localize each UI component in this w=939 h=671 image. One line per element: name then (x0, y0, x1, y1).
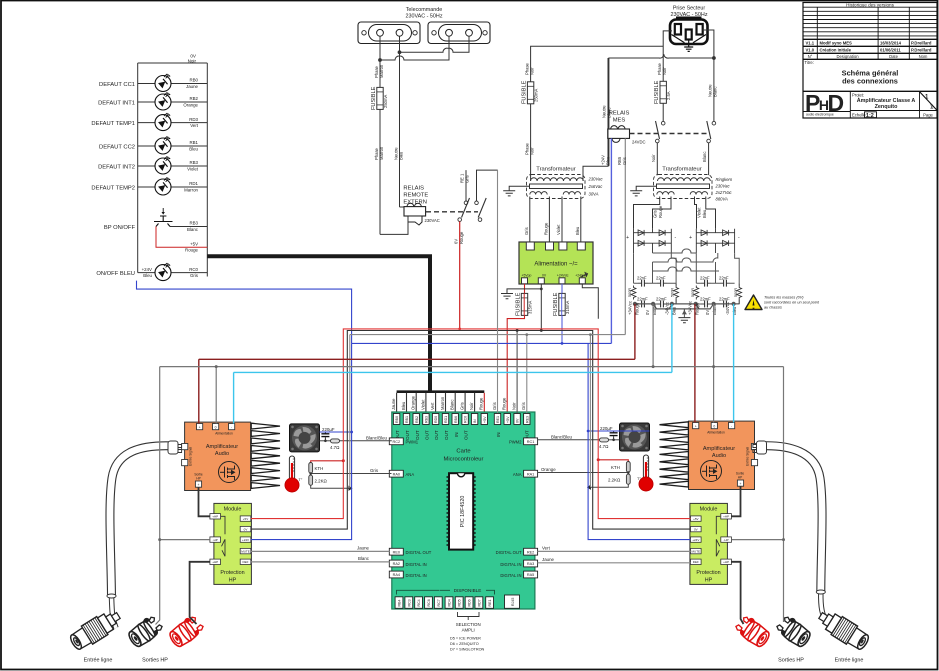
svg-text:2.5A: 2.5A (666, 91, 671, 100)
label wire colors top pins (391, 395, 526, 410)
svg-text:250mA: 250mA (534, 89, 539, 102)
wire +5V rouge run (251, 328, 691, 519)
heatsink left (251, 423, 280, 488)
svg-text:+24Vdc: +24Vdc (557, 274, 569, 278)
svg-text:RC7: RC7 (437, 599, 441, 606)
svg-text:V1.1: V1.1 (806, 41, 815, 46)
warning triangle (745, 295, 820, 310)
svg-text:RB2: RB2 (415, 416, 419, 423)
svg-text:HP: HP (738, 475, 742, 479)
LED DEFAUT INT2 (98, 156, 207, 174)
wire thick harness from LED panel (207, 256, 484, 392)
label sorties HP right (778, 658, 804, 664)
svg-text:+34Vcc: +34Vcc (628, 301, 633, 315)
svg-text:250mA: 250mA (383, 95, 388, 108)
svg-text:sont raccordées en un seul poi: sont raccordées en un seul point (764, 301, 820, 305)
svg-text:Alimentation: Alimentation (215, 432, 233, 436)
svg-text:Gris: Gris (521, 402, 526, 410)
svg-text:22mF: 22mF (719, 297, 730, 302)
svg-text:01/06/2011: 01/06/2011 (880, 48, 901, 53)
svg-text:MUTE: MUTE (241, 550, 250, 554)
label SELECTION AMPLI (450, 612, 485, 652)
svg-text:Amplificateur: Amplificateur (206, 444, 238, 450)
pins top row (393, 414, 530, 441)
svg-text:RD3: RD3 (189, 117, 198, 122)
svg-text:22mF: 22mF (637, 297, 648, 302)
connector RCA entree right (815, 607, 872, 653)
svg-text:RC3: RC3 (407, 599, 411, 606)
wire sortie HP left (199, 487, 210, 516)
svg-text:Jaune: Jaune (357, 545, 370, 550)
pin RC1 PWM2 (509, 438, 538, 445)
svg-text:Noir: Noir (530, 67, 535, 75)
capacitor 220uF right (600, 426, 618, 440)
amplifier U2 right box (689, 421, 758, 489)
svg-text:RB3: RB3 (425, 416, 429, 423)
svg-text:Historique des versions: Historique des versions (846, 2, 894, 7)
resistor 4.7R left (320, 435, 392, 450)
wire red BP to +5V row (156, 227, 207, 253)
connector J2 telecommande right (428, 22, 490, 44)
transformer T1 small (527, 58, 609, 199)
svg-text:230Vac: 230Vac (588, 177, 604, 182)
svg-text:2.2KΩ: 2.2KΩ (315, 479, 328, 484)
wire +HP to red post right (731, 562, 743, 624)
node LED panel bus frame (138, 63, 208, 277)
resistor 2.2K right (587, 472, 630, 490)
svg-text:500R: 500R (671, 288, 675, 297)
svg-text:DIGITAL IN: DIGITAL IN (500, 573, 521, 578)
caps 22mF row2 (634, 297, 735, 308)
svg-text:Page: Page (923, 113, 933, 118)
label +34Vcc rails (628, 301, 738, 315)
wire RE1 gris (497, 170, 499, 413)
svg-text:Transformateur: Transformateur (662, 167, 701, 173)
svg-text:T°: T° (299, 478, 303, 482)
svg-text:FUSIBLE: FUSIBLE (516, 292, 522, 316)
svg-text:Prise Secteur: Prise Secteur (673, 6, 706, 12)
svg-text:+: + (695, 424, 697, 428)
label Prise Secteur (670, 6, 707, 19)
binding post red left (166, 613, 205, 649)
svg-text:DIGITAL IN: DIGITAL IN (406, 573, 427, 578)
wire sortie HP right (731, 486, 740, 516)
thermometer right (637, 455, 653, 491)
svg-text:FUSIBLE: FUSIBLE (553, 292, 559, 316)
svg-text:RD7: RD7 (477, 599, 481, 606)
svg-text:RA0: RA0 (393, 472, 400, 476)
svg-text:22nF: 22nF (700, 276, 710, 281)
svg-text:RELAIS: RELAIS (609, 111, 630, 117)
svg-text:RA2: RA2 (393, 562, 400, 566)
svg-text:Vert: Vert (542, 545, 551, 550)
wire stubs to top pins (397, 393, 485, 413)
svg-text:RD4: RD4 (448, 599, 452, 606)
svg-text:Marron: Marron (184, 187, 198, 192)
svg-text:22mF: 22mF (656, 297, 667, 302)
svg-text:Vert: Vert (430, 402, 435, 410)
svg-text:Blanc: Blanc (450, 400, 455, 410)
svg-text:Violet: Violet (556, 224, 561, 235)
resistors 500R bleeders (628, 283, 742, 304)
cable entree ligne left (107, 441, 182, 628)
svg-text:RD1: RD1 (444, 416, 448, 423)
svg-text:Marron: Marron (379, 64, 384, 78)
svg-text:FUSIBLE: FUSIBLE (654, 80, 660, 104)
wire mute/def right (538, 545, 691, 562)
svg-text:+34Vcc: +34Vcc (688, 301, 693, 315)
svg-text:RC0: RC0 (464, 416, 468, 423)
svg-text:ANA: ANA (513, 472, 522, 477)
svg-text:Protection: Protection (696, 570, 720, 576)
svg-text:Alimentation ~/=: Alimentation ~/= (534, 262, 578, 268)
svg-text:DEFAUT INT1: DEFAUT INT1 (98, 101, 135, 107)
svg-text:Zenquito: Zenquito (875, 104, 898, 110)
title block frame (803, 3, 937, 119)
ground T2 (630, 186, 656, 196)
svg-text:6V: 6V (454, 239, 459, 244)
svg-text:Gris: Gris (622, 157, 627, 165)
svg-text:REMOTE: REMOTE (403, 193, 428, 199)
svg-text:500R: 500R (628, 288, 632, 297)
capacitor 220uF left (321, 427, 334, 441)
wire -34Vcc cyan (234, 304, 734, 424)
pin RA1 ANA (513, 470, 538, 477)
svg-text:16/03/2014: 16/03/2014 (880, 41, 902, 46)
wire 0V blanc run (156, 304, 786, 625)
pin RE2 DIGITAL OUT right (496, 548, 538, 555)
svg-text:RB4: RB4 (398, 600, 402, 607)
svg-text:Noir: Noir (512, 402, 517, 410)
svg-text:FUSIBLE: FUSIBLE (522, 80, 528, 104)
svg-text:Rouge: Rouge (543, 222, 548, 235)
svg-text:Sorties HP: Sorties HP (778, 658, 804, 664)
svg-text:+5V: +5V (693, 517, 698, 521)
svg-text:Audio: Audio (712, 453, 726, 459)
svg-text:HP: HP (196, 476, 200, 480)
svg-text:RE0: RE0 (393, 550, 400, 554)
svg-text:ANA: ANA (406, 472, 415, 477)
svg-text:P.Dreillard: P.Dreillard (911, 48, 932, 53)
svg-text:DIGITAL IN: DIGITAL IN (406, 562, 427, 567)
cable entree ligne right (753, 441, 827, 624)
transistor Q1 mosfet left (219, 462, 240, 483)
svg-text:Bleu: Bleu (575, 226, 580, 235)
svg-text:RA1: RA1 (527, 472, 534, 476)
label entree ligne left (84, 658, 113, 664)
svg-text:0V: 0V (645, 310, 650, 315)
svg-text:RB3: RB3 (189, 221, 198, 226)
wire alim 4th pin (582, 284, 598, 319)
svg-text:2x6Vac: 2x6Vac (588, 184, 604, 189)
label DISPONIBLE (397, 588, 495, 594)
svg-text:+: + (689, 235, 692, 241)
svg-text:MUTE: MUTE (692, 550, 701, 554)
svg-text:+HP: +HP (212, 560, 218, 564)
pins bottom row (395, 595, 519, 608)
svg-text:230VAC: 230VAC (425, 218, 440, 223)
wire 0V noir run (251, 329, 691, 529)
svg-text:22nF: 22nF (719, 276, 729, 281)
svg-text:-HP: -HP (724, 538, 729, 542)
svg-text:RE1: RE1 (496, 416, 500, 423)
svg-text:Rouge: Rouge (502, 397, 507, 410)
svg-text:24VDC: 24VDC (632, 140, 646, 145)
svg-text:P.Dreillard: P.Dreillard (911, 41, 932, 46)
svg-text:30VA: 30VA (589, 192, 599, 197)
bridge rectifier B1 (626, 229, 676, 254)
relay K2 MES coil (608, 126, 646, 145)
svg-text:RE2: RE2 (527, 550, 534, 554)
svg-text:DIGITAL OUT: DIGITAL OUT (496, 550, 522, 555)
pin RC2 PWM1 (389, 438, 418, 445)
fuse F1 250mA (371, 86, 388, 234)
svg-text:500R: 500R (734, 288, 738, 297)
svg-text:RC6: RC6 (427, 599, 431, 606)
contact spare switch (475, 170, 498, 221)
svg-text:des connexions: des connexions (842, 77, 898, 86)
svg-text:Blanc: Blanc (187, 227, 199, 232)
svg-text:Audio: Audio (215, 451, 229, 457)
svg-text:Module: Module (224, 507, 242, 513)
caps 22nF row1 (634, 276, 735, 287)
chip PIC 18F4520 (447, 473, 476, 549)
svg-text:Violet: Violet (187, 166, 199, 171)
svg-text:RB6: RB6 (454, 416, 458, 423)
svg-text:DEFAUT TEMP1: DEFAUT TEMP1 (91, 121, 135, 127)
wire phase secteur (531, 31, 672, 88)
svg-text:DISPONIBLE: DISPONIBLE (454, 588, 482, 593)
contact MES neutre (702, 121, 716, 175)
svg-text:Orange: Orange (411, 395, 416, 410)
svg-text:RB2: RB2 (189, 96, 198, 101)
svg-text:RC2: RC2 (392, 440, 400, 444)
svg-text:22mF: 22mF (700, 297, 711, 302)
LED DEFAUT CC1 (99, 74, 207, 92)
fuse F4 +5V (507, 284, 532, 413)
LED DEFAUT CC2 (99, 136, 207, 154)
fuse F2 2.5A (654, 80, 671, 121)
svg-text:Gris: Gris (460, 402, 465, 410)
svg-text:315mA: 315mA (565, 301, 570, 314)
connector J1 telecommande left (358, 22, 420, 44)
wire T1 secondaires (524, 197, 581, 243)
svg-text:880VA: 880VA (716, 197, 729, 202)
svg-text:RA3: RA3 (527, 562, 534, 566)
svg-text:Noir: Noir (188, 58, 197, 63)
svg-text:22nF: 22nF (637, 276, 647, 281)
svg-text:Marron: Marron (440, 396, 445, 410)
svg-text:+5V: +5V (483, 416, 487, 423)
wire +34Vcc right (694, 304, 696, 423)
svg-text:Gris: Gris (492, 402, 497, 410)
svg-text:Blanc: Blanc (713, 87, 718, 97)
svg-text:Date: Date (889, 54, 899, 59)
svg-text:Orange: Orange (541, 467, 556, 472)
svg-text:N°: N° (808, 54, 813, 59)
svg-text:Bleu: Bleu (401, 401, 406, 410)
svg-text:Entrée ligne: Entrée ligne (84, 658, 113, 664)
LED DEFAUT TEMP2 (91, 177, 207, 195)
wire +24V bleu MES (600, 138, 611, 343)
svg-text:Blanc/Bleu: Blanc/Bleu (551, 434, 573, 439)
dashed relay linkage (426, 211, 478, 213)
pin RA2 DIGITAL IN left (389, 560, 426, 567)
wire gris sensor right (538, 467, 630, 474)
svg-text:DEFAUT INT2: DEFAUT INT2 (98, 165, 135, 171)
svg-text:IN: IN (454, 432, 459, 437)
resistor 2.2K left (309, 473, 353, 491)
svg-text:+: + (199, 425, 201, 429)
svg-text:230Vac: 230Vac (715, 184, 731, 189)
connector RCA entree left (67, 607, 124, 653)
svg-text:0V: 0V (516, 418, 520, 423)
module Protection HP left (210, 503, 252, 584)
svg-text:RB0: RB0 (395, 416, 399, 423)
svg-text:Bleu: Bleu (143, 273, 152, 278)
svg-text:RB1: RB1 (405, 416, 409, 423)
contact MES phase (651, 121, 665, 175)
svg-text:ON/OFF BLEU: ON/OFF BLEU (96, 271, 135, 277)
svg-text:+: + (626, 235, 629, 241)
svg-text:PIC 18F4520: PIC 18F4520 (460, 496, 466, 528)
svg-text:PWM1: PWM1 (406, 440, 419, 445)
svg-text:Noir: Noir (662, 67, 667, 75)
svg-text:OUT: OUT (434, 430, 439, 440)
svg-text:4.7Ω: 4.7Ω (330, 445, 340, 450)
svg-text:BP ON/OFF: BP ON/OFF (104, 225, 136, 231)
board Carte Microcontroleur (392, 412, 535, 609)
fan M1 left (290, 424, 320, 452)
svg-text:Toutes les masses (0V): Toutes les masses (0V) (764, 296, 804, 300)
svg-text:4.7Ω: 4.7Ω (599, 444, 609, 449)
dashed MES linkage (630, 133, 710, 135)
svg-text:D7 = SINGLOTRON: D7 = SINGLOTRON (450, 648, 485, 652)
svg-text:Blanc: Blanc (702, 152, 707, 162)
svg-text:Violet: Violet (697, 207, 702, 218)
svg-text:Jaune: Jaune (391, 398, 396, 410)
svg-text:RE3: RE3 (525, 416, 529, 423)
label entree ligne right (835, 658, 864, 664)
svg-text:Designation: Designation (836, 54, 859, 59)
svg-text:Bleu: Bleu (732, 306, 737, 315)
svg-text:Rouge: Rouge (185, 248, 198, 253)
pin RA3 DIGITAL IN right (500, 560, 537, 567)
svg-text:RA5: RA5 (527, 573, 534, 577)
svg-text:0: 0 (713, 424, 715, 428)
LED DEFAUT INT1 (98, 92, 207, 110)
svg-text:OUT: OUT (444, 430, 449, 440)
svg-text:0V: 0V (705, 310, 710, 315)
label sorties HP left (142, 658, 168, 664)
svg-text:SELECTION: SELECTION (456, 622, 481, 627)
svg-text:T°: T° (637, 477, 641, 481)
svg-text:Microcontroleur: Microcontroleur (444, 457, 484, 463)
svg-text:+24Vdc: +24Vdc (575, 274, 587, 278)
svg-text:RE1: RE1 (488, 600, 492, 607)
svg-text:Protection: Protection (220, 570, 244, 576)
svg-text:+: + (740, 482, 742, 486)
svg-text:+5Vpp: +5Vpp (522, 274, 532, 278)
binding post black right (774, 613, 813, 649)
svg-text:DEFAUT CC2: DEFAUT CC2 (99, 145, 135, 151)
heatsink right (660, 422, 689, 487)
svg-text:Vert: Vert (190, 123, 199, 128)
pushbutton BP ON/OFF (104, 208, 207, 232)
relay K1 remote coil (380, 52, 440, 234)
svg-text:DEF: DEF (693, 560, 699, 564)
svg-text:Gris: Gris (653, 210, 658, 218)
svg-text:RD0: RD0 (434, 416, 438, 423)
svg-text:Projet:: Projet: (852, 93, 864, 98)
wire RB5 gris MES (617, 138, 627, 334)
wire mute/def left (251, 545, 389, 562)
pin RA5 DIGITAL IN right (500, 571, 537, 578)
fuse F3 250mA transfo (522, 80, 539, 104)
pin RA0 ANA (389, 470, 414, 477)
logo PhD (805, 90, 843, 117)
node 0V rails (633, 302, 735, 314)
svg-text:Modif syno MES: Modif syno MES (820, 41, 853, 46)
svg-text:Orange: Orange (183, 102, 198, 107)
label Phase Marron / Neutre Bleu (374, 64, 404, 160)
svg-text:230VAC - 50Hz: 230VAC - 50Hz (405, 14, 442, 20)
svg-text:RB0: RB0 (189, 78, 198, 83)
svg-text:Bleu: Bleu (702, 209, 707, 218)
thermometer left (285, 456, 303, 492)
svg-text:D5 = ICE POWER: D5 = ICE POWER (450, 637, 481, 641)
wire +24V bleu run (251, 342, 691, 540)
svg-text:RC4: RC4 (417, 599, 421, 606)
svg-text:+24V: +24V (142, 267, 152, 272)
wire gris RB5 run (350, 333, 626, 488)
svg-text:+24V: +24V (692, 538, 699, 542)
svg-text:DEFAUT TEMP2: DEFAUT TEMP2 (91, 186, 135, 192)
thermistor KTH right (597, 458, 631, 472)
svg-text:22nF: 22nF (656, 276, 666, 281)
svg-text:+HP: +HP (723, 515, 729, 519)
svg-text:Transformateur: Transformateur (536, 167, 575, 173)
svg-text:OUT: OUT (425, 430, 430, 440)
thermistor KTH left (309, 459, 345, 473)
svg-text:Jaune: Jaune (186, 84, 199, 89)
resistor 4.7R right (538, 434, 620, 449)
module Protection HP right (690, 503, 731, 584)
svg-text:+HP: +HP (723, 560, 729, 564)
amplifier U1 left box (182, 422, 251, 490)
svg-text:RA4: RA4 (393, 573, 400, 577)
wire T2 secondaires to bridges (634, 197, 716, 229)
svg-text:RD5: RD5 (458, 599, 462, 606)
svg-text:RB3: RB3 (189, 160, 198, 165)
svg-text:Gris: Gris (370, 468, 379, 473)
svg-text:DIGITAL OUT: DIGITAL OUT (406, 550, 432, 555)
label RELAIS MES (609, 111, 630, 124)
wire +HP to red post left (190, 562, 210, 624)
bridge rectifier B2 (689, 229, 740, 254)
svg-text:audio électronique: audio électronique (806, 113, 834, 117)
title block text (805, 2, 935, 119)
svg-text:FUSIBLE: FUSIBLE (371, 86, 377, 110)
svg-text:Gris: Gris (524, 227, 529, 235)
wire rectifier mesh (634, 249, 740, 284)
svg-text:+HP: +HP (212, 515, 218, 519)
svg-text:DEF: DEF (243, 560, 249, 564)
svg-text:RC1: RC1 (527, 440, 535, 444)
contact RE1 switch (458, 170, 470, 221)
svg-text:500R: 500R (691, 288, 695, 297)
svg-text:Amplificateur: Amplificateur (703, 446, 735, 452)
